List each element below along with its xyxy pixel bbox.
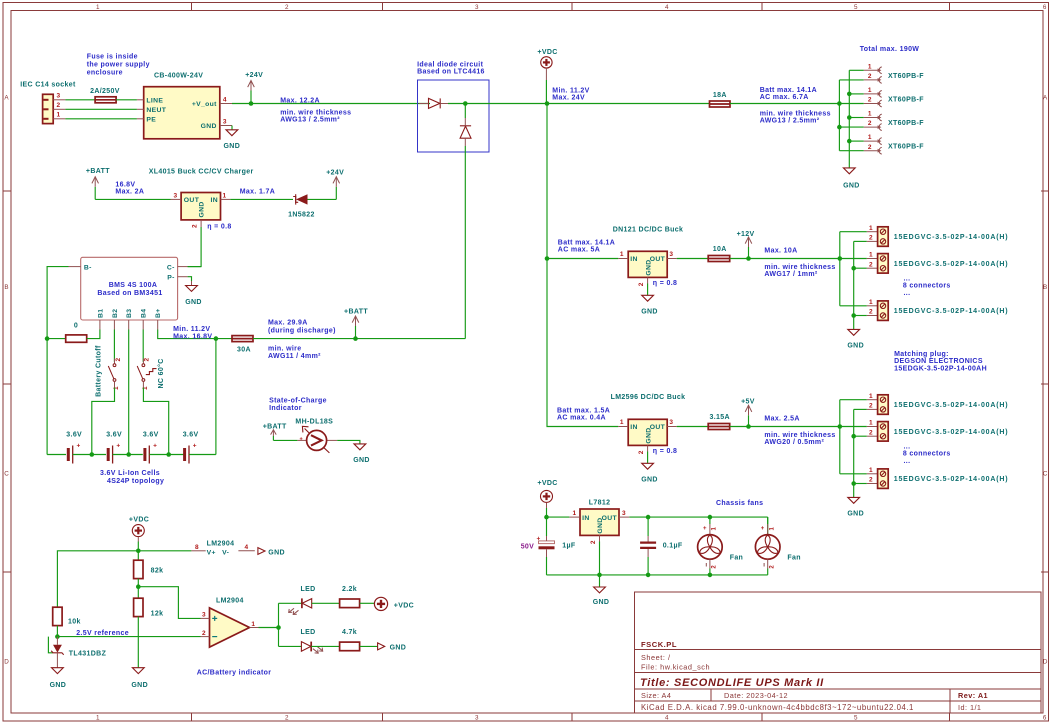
battery bottom rail wire <box>47 454 66 456</box>
svg-text:...: ... <box>904 443 911 450</box>
svg-text:L7812: L7812 <box>589 499 611 506</box>
svg-text:GND: GND <box>641 309 658 316</box>
node 24V bus junction <box>837 101 842 106</box>
wire charger IN to diode <box>230 198 293 200</box>
svg-text:1: 1 <box>868 87 872 94</box>
wire OR node down to D2 <box>464 104 466 119</box>
svg-text:15EDGVC-3.5-02P-14-00A(H): 15EDGVC-3.5-02P-14-00A(H) <box>894 429 1009 436</box>
wire B4 to thermal switch <box>142 330 144 362</box>
wire D2 anode down to battery rail <box>464 138 466 146</box>
svg-text:AWG20 / 0.5mm²: AWG20 / 0.5mm² <box>764 439 824 446</box>
svg-text:4: 4 <box>223 96 227 103</box>
regulator U2 XL4015 Buck CC/CV Charger <box>149 169 254 228</box>
wire VDC to left branch <box>57 551 138 607</box>
svg-text:Max. 16.8V: Max. 16.8V <box>173 333 212 340</box>
ground at TL431 <box>50 668 67 689</box>
svg-text:0: 0 <box>74 322 78 329</box>
svg-text:1: 1 <box>712 527 718 531</box>
connector J5 XT60PB-F <box>864 134 924 154</box>
svg-text:1: 1 <box>223 192 227 199</box>
note rail voltage <box>552 88 589 102</box>
svg-text:A: A <box>4 95 9 102</box>
node divider junction <box>136 584 141 589</box>
svg-text:2: 2 <box>769 565 775 569</box>
svg-text:2: 2 <box>869 309 873 316</box>
svg-text:10A: 10A <box>713 246 727 253</box>
connector J9 15EDGVC terminal <box>867 393 1009 415</box>
power supply PS1 CB-400W-24V <box>137 73 232 139</box>
svg-text:2: 2 <box>590 540 597 544</box>
wire DN121 GND pin down <box>647 284 649 296</box>
svg-text:AWG13 / 2.5mm²: AWG13 / 2.5mm² <box>280 117 340 124</box>
meter M1 MH-DL18S state of charge <box>295 418 337 453</box>
row tick B|C <box>3 383 11 385</box>
diode D4 LED AC <box>289 586 316 614</box>
svg-text:LINE: LINE <box>146 97 163 104</box>
svg-text:Batt max. 14.1A: Batt max. 14.1A <box>760 87 817 94</box>
svg-text:min. wire thickness: min. wire thickness <box>760 110 831 117</box>
svg-text:Fuse is inside: Fuse is inside <box>87 54 138 61</box>
wire VDC node down to buck branches <box>547 104 618 427</box>
wire to LED1 <box>279 602 302 604</box>
note LM2596 input current <box>557 407 610 421</box>
svg-text:XT60PB-F: XT60PB-F <box>888 120 924 127</box>
wire reference to opamp minus input <box>57 636 200 638</box>
svg-text:enclosure: enclosure <box>87 70 123 77</box>
note pack voltage <box>173 326 212 340</box>
svg-text:3: 3 <box>223 118 227 125</box>
wire 3.15A fuse to terminal bus <box>730 426 840 428</box>
power +BATT charger output <box>86 168 110 200</box>
ground at 5V terminal group <box>847 497 864 517</box>
svg-text:3.6V: 3.6V <box>183 432 199 439</box>
node DN121 branch junction <box>545 256 550 261</box>
fuse F2 30A <box>232 336 253 354</box>
svg-text:2: 2 <box>868 120 872 127</box>
svg-text:3.6V Li-Ion Cells: 3.6V Li-Ion Cells <box>100 470 160 477</box>
connector J4 XT60PB-F <box>864 111 924 131</box>
connector J1 IEC C14 socket <box>20 82 76 124</box>
wire 12V gnd bus vertical <box>853 241 855 329</box>
svg-text:+12V: +12V <box>737 231 755 238</box>
power +5V <box>741 399 755 429</box>
svg-text:3: 3 <box>475 715 479 722</box>
svg-text:Batt max. 1.5A: Batt max. 1.5A <box>557 407 610 414</box>
wire fan2 drop <box>767 517 769 535</box>
wire 18A fuse to XT60 bus <box>730 103 839 105</box>
svg-text:State-of-Charge: State-of-Charge <box>269 398 327 405</box>
resistor R5 10k <box>53 607 81 636</box>
svg-text:5: 5 <box>854 4 858 11</box>
svg-text:2: 2 <box>638 450 645 454</box>
svg-text:Title: SECONDLIFE UPS Mark II: Title: SECONDLIFE UPS Mark II <box>640 677 824 689</box>
svg-text:30A: 30A <box>237 347 251 354</box>
wire u3 pin2 row <box>854 483 867 485</box>
diode D5 LED battery <box>301 629 323 653</box>
svg-text:V+: V+ <box>207 550 216 557</box>
svg-text:+: + <box>77 443 81 450</box>
node fan1 top <box>708 515 713 520</box>
svg-text:GND: GND <box>847 511 864 518</box>
connector J2 XT60PB-F <box>864 63 924 83</box>
opamp U6 LM2904 comparator <box>201 597 259 647</box>
note 8 connectors group2 <box>903 443 951 464</box>
svg-text:3.6V: 3.6V <box>66 432 82 439</box>
wire fuse to LINE <box>116 99 137 101</box>
svg-text:D: D <box>4 659 9 666</box>
connector J8 15EDGVC terminal <box>867 299 1009 321</box>
note: fuse location <box>87 54 150 77</box>
svg-text:+VDC: +VDC <box>129 516 149 523</box>
svg-text:IN: IN <box>582 515 590 522</box>
wire 5V bus vertical <box>839 400 841 474</box>
power +24V charger input <box>326 170 344 200</box>
svg-text:GND: GND <box>50 682 67 689</box>
wire c1 pin1 row <box>849 69 864 71</box>
node OR-ing junction <box>463 101 468 106</box>
note wire thickness <box>280 110 351 124</box>
wire t3 pin2 row <box>854 315 867 317</box>
wire c3 pin2 row <box>839 126 863 128</box>
svg-text:B+: B+ <box>155 308 162 318</box>
svg-text:1: 1 <box>57 112 61 119</box>
svg-text:IN: IN <box>211 197 219 204</box>
svg-text:XT60PB-F: XT60PB-F <box>888 73 924 80</box>
node u3 pin2 <box>851 481 856 486</box>
svg-text:PE: PE <box>146 116 156 123</box>
svg-text:2: 2 <box>202 630 206 637</box>
wire diode to +24V <box>308 198 337 200</box>
svg-text:18A: 18A <box>713 92 727 99</box>
svg-text:1: 1 <box>620 419 624 426</box>
svg-text:10k: 10k <box>68 619 81 626</box>
svg-text:3: 3 <box>174 192 178 199</box>
svg-text:5: 5 <box>854 715 858 722</box>
note matching plug <box>894 351 987 372</box>
wire t2 pin1 row <box>840 258 867 260</box>
ground at DN121 <box>641 295 658 315</box>
svg-text:+VDC: +VDC <box>537 49 557 56</box>
svg-text:2: 2 <box>868 144 872 151</box>
fuse F1 2A/250V <box>90 88 120 103</box>
svg-text:IN: IN <box>630 424 638 431</box>
svg-text:GND: GND <box>597 517 604 533</box>
svg-text:+: + <box>153 443 157 450</box>
svg-text:LED: LED <box>301 629 316 636</box>
svg-text:Min. 11.2V: Min. 11.2V <box>173 326 210 333</box>
resistor R6 2.2k <box>340 586 360 607</box>
svg-text:6: 6 <box>1043 715 1047 722</box>
svg-text:1: 1 <box>868 111 872 118</box>
wire B+ to battery output rail <box>158 330 232 339</box>
svg-text:η = 0.8: η = 0.8 <box>207 223 231 230</box>
svg-text:3: 3 <box>57 93 61 100</box>
fuse F3 18A <box>710 92 731 107</box>
svg-text:6: 6 <box>1043 4 1047 11</box>
svg-text:GND: GND <box>131 682 148 689</box>
svg-text:BMS 4S 100A: BMS 4S 100A <box>109 282 158 289</box>
wire 24V bus vertical <box>838 80 840 151</box>
wire 30A fuse to ideal diode column <box>253 338 465 340</box>
ideal diode bounding box <box>418 80 490 152</box>
wire t2 pin2 row <box>854 267 867 269</box>
ground at CB GND pin <box>224 126 241 151</box>
svg-text:+: + <box>761 526 765 532</box>
resistor R2 0 ohm <box>66 322 87 342</box>
node comparator VDC junction <box>136 549 141 554</box>
svg-text:IN: IN <box>630 256 638 263</box>
wire LM2596 OUT to fuse <box>677 426 709 428</box>
wire c1 pin2 row <box>839 79 863 81</box>
node VDC junction <box>545 101 550 106</box>
node LED branch junction <box>276 625 281 630</box>
svg-text:1: 1 <box>869 420 873 427</box>
svg-text:2: 2 <box>712 565 718 569</box>
diode D2 battery <box>460 126 471 138</box>
svg-text:3: 3 <box>669 419 673 426</box>
svg-text:+VDC: +VDC <box>537 480 557 487</box>
note ideal diode <box>417 61 485 75</box>
wire u3 pin1 row <box>840 473 867 475</box>
diode D1 mains <box>419 98 448 108</box>
svg-text:+BATT: +BATT <box>263 423 287 430</box>
svg-text:LM2904: LM2904 <box>216 597 244 604</box>
svg-text:15EDGVC-3.5-02P-14-00A(H): 15EDGVC-3.5-02P-14-00A(H) <box>894 402 1009 409</box>
node 12V terminal bus junction <box>838 256 843 261</box>
wire branch to DN121 IN <box>547 258 618 260</box>
svg-text:82k: 82k <box>151 568 164 575</box>
svg-text:15EDGVC-3.5-02P-14-00A(H): 15EDGVC-3.5-02P-14-00A(H) <box>894 234 1009 241</box>
wire socket pin1 to PE <box>65 118 136 120</box>
resistor R3 82k <box>134 551 164 587</box>
svg-text:4S24P topology: 4S24P topology <box>107 478 164 485</box>
wire c4 pin1 row <box>849 140 864 142</box>
svg-text:GND: GND <box>641 477 658 484</box>
shunt regulator U8 TL431DBZ <box>51 637 106 668</box>
svg-text:C: C <box>4 471 9 478</box>
svg-text:...: ... <box>904 290 911 297</box>
svg-text:CB-400W-24V: CB-400W-24V <box>154 73 203 80</box>
connector J11 15EDGVC terminal <box>867 467 1009 489</box>
svg-text:XT60PB-F: XT60PB-F <box>888 144 924 151</box>
svg-text:Max. 29.9A: Max. 29.9A <box>268 319 308 326</box>
svg-text:FSCK.PL: FSCK.PL <box>641 640 677 649</box>
wire LED1 to 2.2k <box>312 602 340 604</box>
svg-text:min. wire: min. wire <box>268 345 302 352</box>
node c3 pin1 <box>847 115 852 120</box>
svg-text:D: D <box>1043 659 1048 666</box>
node c4 pin1 <box>847 139 852 144</box>
svg-text:Size: A4: Size: A4 <box>641 691 671 700</box>
svg-text:C: C <box>1043 471 1048 478</box>
wire D1 cathode to OR node <box>448 103 465 105</box>
svg-text:GND: GND <box>593 599 610 606</box>
wire thermal switch to cell3+ node <box>143 388 168 455</box>
power +VDC LED pullup <box>374 597 414 610</box>
column tick 3|4 <box>571 3 573 11</box>
svg-text:15EDGVC-3.5-02P-14-00A(H): 15EDGVC-3.5-02P-14-00A(H) <box>894 476 1009 483</box>
svg-text:1µF: 1µF <box>562 543 576 550</box>
svg-text:Max. 2.5A: Max. 2.5A <box>764 415 799 422</box>
wire B3 down to cell2+ node <box>128 330 130 455</box>
svg-text:2A/250V: 2A/250V <box>90 88 120 95</box>
svg-text:1N5822: 1N5822 <box>288 211 315 218</box>
row tick C|D <box>3 571 11 573</box>
svg-text:+5V: +5V <box>741 399 755 406</box>
node t3 pin2 <box>851 313 856 318</box>
node fan1 bottom <box>708 573 713 578</box>
svg-text:8: 8 <box>195 544 199 551</box>
svg-text:15EDGVC-3.5-02P-14-00A(H): 15EDGVC-3.5-02P-14-00A(H) <box>894 261 1009 268</box>
title block <box>635 592 1042 713</box>
wire 4.7k to ground arrow <box>360 645 378 647</box>
svg-text:GND: GND <box>847 343 864 350</box>
svg-text:B: B <box>4 284 9 291</box>
wire cutoff switch to cell1+ node <box>92 388 115 455</box>
wire u1 pin1 row <box>840 399 867 401</box>
wire B2 to cutoff switch <box>113 330 115 362</box>
wire BMS C- up to charger <box>188 266 202 268</box>
wire to LED2 <box>279 645 302 647</box>
svg-text:1: 1 <box>620 251 624 258</box>
svg-text:+VDC: +VDC <box>394 602 414 609</box>
node cell2/cell3 <box>126 452 131 457</box>
svg-text:2: 2 <box>869 429 873 436</box>
node c3 pin2 <box>837 125 842 130</box>
ground at meter <box>353 444 370 464</box>
svg-text:B3: B3 <box>126 309 133 318</box>
svg-text:2.2k: 2.2k <box>342 586 357 593</box>
wire +BATT to meter <box>273 439 297 441</box>
svg-text:Ideal diode circuit: Ideal diode circuit <box>417 61 483 68</box>
svg-text:1: 1 <box>251 621 255 628</box>
svg-text:OUT: OUT <box>184 197 200 204</box>
svg-text:AWG11 / 4mm²: AWG11 / 4mm² <box>268 353 321 360</box>
power +VDC main rail <box>537 49 557 103</box>
svg-text:LM2904: LM2904 <box>207 540 235 547</box>
node C2 rail <box>646 573 651 578</box>
svg-text:the power supply: the power supply <box>87 62 150 69</box>
svg-text:LM2596 DC/DC Buck: LM2596 DC/DC Buck <box>611 394 686 401</box>
battery cell BT3 3.6V <box>143 432 159 464</box>
power +BATT meter feed <box>263 423 287 440</box>
svg-text:GND: GND <box>268 550 285 557</box>
wire junction to 0 ohm <box>47 338 66 340</box>
svg-text:Matching plug:: Matching plug: <box>894 351 949 358</box>
svg-text:3: 3 <box>475 4 479 11</box>
note XT60 wire gauge <box>760 110 831 124</box>
wire LED2 to 4.7k <box>311 645 339 647</box>
svg-text:12k: 12k <box>151 610 164 617</box>
node u2 pin2 <box>851 434 856 439</box>
note battery wire gauge <box>268 345 321 359</box>
svg-text:8 connectors: 8 connectors <box>903 283 951 290</box>
ground at fan rail <box>593 587 610 606</box>
wire u1 pin2 row <box>854 408 867 410</box>
svg-text:GND: GND <box>353 457 370 464</box>
svg-text:1: 1 <box>868 134 872 141</box>
svg-text:8 connectors: 8 connectors <box>903 451 951 458</box>
svg-text:GND: GND <box>645 427 652 443</box>
opamp U6 LM2904 power pins <box>191 540 285 556</box>
svg-text:KiCad E.D.A. kicad 7.99.0-unk: KiCad E.D.A. kicad 7.99.0-unknown-4c4bbd… <box>641 703 914 712</box>
fan M2 <box>698 517 744 575</box>
svg-text:1: 1 <box>868 63 872 70</box>
svg-text:B4: B4 <box>141 309 148 318</box>
svg-text:3: 3 <box>622 510 626 517</box>
svg-text:GND: GND <box>199 201 206 217</box>
column tick 1|2 <box>191 3 193 11</box>
svg-text:2: 2 <box>868 97 872 104</box>
svg-text:2: 2 <box>285 715 289 722</box>
wire u2 pin1 row <box>840 426 867 428</box>
svg-text:3: 3 <box>202 612 206 619</box>
svg-text:GND: GND <box>843 183 860 190</box>
svg-text:LED: LED <box>301 586 316 593</box>
svg-text:+24V: +24V <box>245 72 263 79</box>
svg-text:2: 2 <box>869 235 873 242</box>
svg-text:B-: B- <box>84 264 92 271</box>
svg-text:AC max. 6.7A: AC max. 6.7A <box>760 94 809 101</box>
ground rail wire <box>547 574 768 576</box>
power +12V <box>737 231 755 261</box>
svg-text:Min. 11.2V: Min. 11.2V <box>552 88 589 95</box>
wire BMS P- to ground <box>188 277 192 281</box>
svg-text:Date: 2023-04-12: Date: 2023-04-12 <box>724 691 788 700</box>
regulator U5 LM2596 DC/DC Buck <box>611 394 686 454</box>
svg-text:2: 2 <box>57 102 61 109</box>
svg-text:+: + <box>703 526 707 532</box>
wire DN121 OUT to fuse <box>677 258 709 260</box>
svg-text:50V: 50V <box>521 543 535 550</box>
svg-text:1: 1 <box>869 393 873 400</box>
svg-text:2.5V reference: 2.5V reference <box>76 630 129 637</box>
resistor R4 12k <box>134 587 164 668</box>
switch SW2 NC 60C thermal <box>137 357 165 390</box>
svg-text:AWG13 / 2.5mm²: AWG13 / 2.5mm² <box>760 117 820 124</box>
wire L7812 GND to rail <box>599 542 601 575</box>
svg-text:GND: GND <box>185 299 202 306</box>
note discharge current <box>268 319 336 334</box>
note 5V wire gauge <box>764 432 835 446</box>
wire socket pin2 to NEUT <box>65 108 136 110</box>
node t2 pin2 <box>851 266 856 271</box>
svg-text:Max. 12.2A: Max. 12.2A <box>280 97 320 104</box>
wire c4 pin2 row <box>839 150 863 152</box>
svg-text:XT60PB-F: XT60PB-F <box>888 96 924 103</box>
node L7812 GND rail <box>597 573 602 578</box>
svg-text:η = 0.8: η = 0.8 <box>653 280 677 287</box>
node reference junction <box>55 634 60 639</box>
svg-text:Max. 24V: Max. 24V <box>552 95 585 102</box>
svg-text:AC max. 5A: AC max. 5A <box>558 247 600 254</box>
svg-text:+V_out: +V_out <box>192 101 217 108</box>
svg-text:η = 0.8: η = 0.8 <box>653 448 677 455</box>
svg-text:2: 2 <box>869 261 873 268</box>
svg-text:B1: B1 <box>97 309 104 318</box>
wire opamp output to LED branch <box>259 627 279 629</box>
svg-text:3: 3 <box>669 251 673 258</box>
wire right vertical cell4 to rail <box>215 339 217 455</box>
svg-text:4.7k: 4.7k <box>342 629 357 636</box>
svg-text:1: 1 <box>869 225 873 232</box>
wire 12V bus vertical <box>839 232 841 306</box>
power +24V at PS output <box>245 72 263 106</box>
svg-text:...: ... <box>904 458 911 465</box>
wire junction to L7812 IN <box>547 516 570 518</box>
power +VDC fan branch <box>537 480 557 517</box>
svg-text:IEC C14 socket: IEC C14 socket <box>20 82 76 89</box>
